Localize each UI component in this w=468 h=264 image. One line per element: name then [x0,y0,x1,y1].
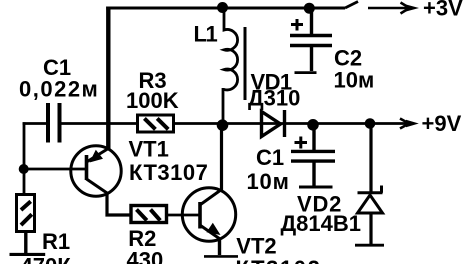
zener VD2 triangle [358,195,383,213]
resistor R2 hatch 1 [137,210,147,221]
diode VD1 triangle [262,112,281,137]
transistor VT2 collector diagonal [201,190,222,205]
svg-text:+3V: +3V [423,0,463,20]
transistor VT1 circle [71,146,121,196]
svg-text:10м: 10м [247,169,290,194]
wire: VT1 collector to R2 [107,192,131,216]
wire: R2 to VT2 base [166,214,200,217]
wire: VT2 collector / L1 bottom vertical [220,124,223,191]
capacitor C2 plus sign [291,19,303,31]
resistor R2 hatch 2 [151,210,161,221]
node: +9V bus / C1 junction [307,119,319,131]
resistor R2 box [131,206,167,223]
wire: left vertical (C1 to R1/VT1 base node) [23,122,26,193]
arrow: +9V output head [406,120,419,127]
resistor R1 box [17,195,35,232]
transistor VT2 emitter arrow (NPN) [207,223,221,235]
resistor R1 hatch 2 [21,214,32,225]
capacitor C1 10м top plate [291,150,335,153]
svg-text:100K: 100K [126,88,179,113]
transistor VT1 emitter arrow (PNP) [90,150,104,163]
wire: top +3V rail [106,7,345,10]
transistor VT2 base bar [198,202,202,229]
zener VD2 top lead [369,124,372,193]
diode VD1 cathode bar [283,110,286,137]
wire: main +9V bus [61,122,411,125]
node: C1/R1/VT1 base junction [19,164,29,174]
resistor R3 box [138,115,174,132]
transistor VT2 emitter diagonal [201,226,221,240]
svg-text:КТ3107: КТ3107 [129,160,208,185]
ground: C1 10м [299,186,333,189]
transistor VT1 emitter diagonal [87,149,109,163]
zener VD2 cathode hook [380,186,383,193]
wire: +3V output lead [368,7,410,10]
svg-text:VT1: VT1 [129,136,169,161]
zener VD2 bottom lead [369,213,372,244]
resistor R1 hatch 1 [21,201,31,210]
wire: VT1 base lead [24,168,87,171]
svg-text:+9V: +9V [422,111,462,136]
svg-text:430: 430 [127,248,164,264]
capacitor C2 top lead [310,8,313,35]
svg-text:10м: 10м [334,67,375,92]
node: +9V bus / VD2 junction [365,118,376,129]
arrow: +3V output head [406,5,419,12]
ground: VT2 [204,255,238,258]
wire: main +9V bus (left segment through C1 gap) [23,122,47,125]
ground: R1 [10,253,46,256]
capacitor C2 bottom lead [310,46,313,72]
wire: VT2 emitter lead [218,239,221,256]
svg-text:Д814В1: Д814В1 [281,211,362,236]
switch SA1 blade [345,2,358,9]
capacitor C2 bottom plate [290,44,332,47]
node: top rail / C2 junction [304,3,315,14]
node: top rail / L1 junction [217,2,228,13]
capacitor C1 0,022м left plate [46,103,50,143]
ground: VD2 [355,244,384,247]
svg-text:L1: L1 [194,21,218,46]
capacitor C1 10м top lead [312,124,315,151]
transistor VT1 base bar [85,155,89,180]
resistor R3 hatch 1 [144,118,155,129]
svg-text:Д310: Д310 [248,86,300,111]
ground: C2 [295,71,317,74]
capacitor C1 0,022м right plate [58,103,62,143]
node: +9V bus / L1 / VT2 collector junction [217,119,229,131]
wire: VT1 emitter to +3V rail [106,7,110,150]
capacitor C1 10м bottom lead [312,161,315,185]
inductor L1 core line [244,27,247,100]
svg-text:КТ3102: КТ3102 [236,256,322,264]
capacitor C1 10м bottom plate [291,159,335,162]
svg-text:0,022м: 0,022м [19,76,99,101]
capacitor C1 10м plus sign [295,137,308,149]
svg-text:C1: C1 [256,145,284,170]
arrow: +3V output chevron [401,3,410,14]
wire: R1 bottom lead [24,232,27,254]
inductor L1 lead and coil [223,8,238,126]
transistor VT1 collector diagonal [87,179,108,193]
zener VD2 cathode bar [358,191,383,194]
svg-text:R1: R1 [42,229,70,254]
arrow: +9V output chevron [400,119,409,129]
resistor R3 hatch 2 [157,118,168,129]
transistor VT2 circle [182,188,235,241]
capacitor C2 top plate [290,34,332,37]
